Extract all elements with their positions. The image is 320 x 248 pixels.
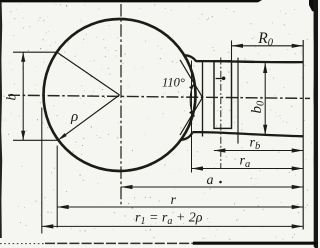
dimension rb line [214,150,303,152]
scan border top edge [0,0,262,2]
cone lower arm [180,97,203,135]
cone upper arm [180,60,203,98]
b dimension line [22,52,24,140]
b bottom extension line [13,139,59,141]
b0 dimension line [264,63,266,136]
b top extension line [13,51,58,53]
groove rectangle [214,61,232,129]
bottom fillet ball-to-shank [181,133,192,140]
cone base vertical line [202,60,204,136]
scan border top-right corner blob [309,0,318,13]
svg-text:ρ: ρ [70,109,78,125]
dimension a line [121,186,303,188]
scan border right edge [314,0,318,248]
shank bottom edge [192,132,303,136]
extension line ra tangent [191,61,193,173]
top fillet ball-to-shank [184,55,196,61]
scan border bottom line [0,243,45,245]
extension above groove right edge [231,41,233,61]
extension line for r [56,146,58,228]
dimension ra line [192,168,304,170]
dimension r line [57,206,303,208]
radius line rho with arrow [60,95,119,139]
vertical line right of groove [237,58,239,144]
svg-text:a: a [207,173,214,188]
R0 dimension line [232,45,304,47]
dimension r1 line [42,225,303,227]
radius line upper-left 146deg [57,52,120,95]
horizontal axis centerline [8,95,310,98]
svg-text:r: r [171,193,177,208]
groove tick mark [216,78,223,80]
extension line for r1 [41,108,43,234]
svg-text:b: b [5,94,20,101]
right end extension line [302,40,304,230]
groove dash-dot centerline [220,58,222,169]
scan border left edge [0,2,2,238]
ball circle [44,19,196,171]
svg-text:110°: 110° [162,76,185,90]
angle arc 110deg [190,84,194,117]
shank top edge [196,61,303,62]
vertical centerline of ball [120,4,122,208]
dot after label a [219,181,222,184]
